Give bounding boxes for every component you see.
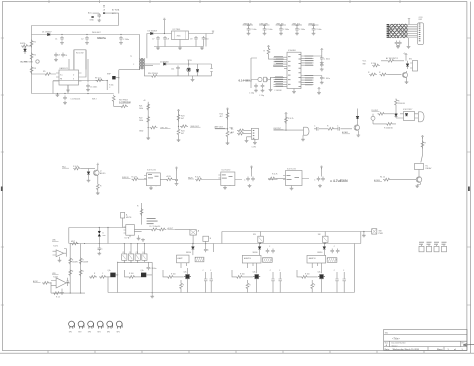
ground con2	[254, 139, 256, 141]
MCU right pin stubs	[301, 56, 314, 85]
wire con pin3	[247, 137, 252, 139]
svg-text:100k: 100k	[139, 108, 143, 110]
resistor Rd3 vertical	[141, 203, 143, 225]
transistor Qr out	[419, 112, 425, 122]
capacitor Cd1	[395, 41, 399, 46]
svg-text:IC7 A: IC7 A	[125, 237, 130, 240]
title block	[384, 329, 467, 350]
border top ticks	[49, 0, 400, 3]
svg-text:7805: 7805	[177, 36, 181, 38]
capacitor Cc1	[204, 248, 208, 253]
ground Q7	[417, 183, 420, 185]
wire secondary top to regulator	[147, 34, 172, 59]
svg-text:<Doc>: <Doc>	[391, 344, 398, 347]
ground con	[245, 139, 249, 142]
ground aux	[318, 88, 321, 91]
capacitor C12	[120, 34, 121, 35]
coil L5	[107, 321, 113, 329]
zone letter left	[1, 187, 3, 192]
resistor Rb3	[180, 280, 182, 282]
resistor R5	[44, 73, 52, 76]
svg-text:KA5M IC1: KA5M IC1	[60, 67, 69, 70]
resistor Rr3	[386, 123, 394, 126]
svg-text:SW: SW	[318, 234, 321, 236]
capacitor pair 3	[335, 272, 338, 293]
switch S3	[137, 244, 139, 254]
resistor Rr2	[378, 112, 386, 115]
wire bottom rail	[108, 292, 354, 294]
relay chain flag	[421, 136, 424, 139]
ground secondary	[189, 72, 198, 78]
capacitor C20	[97, 13, 101, 18]
svg-text:C10: C10	[205, 39, 208, 41]
resistor VR1	[150, 126, 158, 129]
resistor Rd2	[158, 228, 166, 231]
svg-text:A7 WXA: A7 WXA	[112, 8, 120, 11]
node +B flag	[163, 18, 166, 33]
switch box SB2	[203, 236, 209, 241]
resistor R22	[147, 116, 150, 124]
op-amp IC3 TL072	[147, 173, 161, 186]
capacitor Cs2	[335, 127, 343, 131]
transistor Q5	[402, 72, 407, 77]
LED DL1	[371, 116, 375, 120]
svg-text:SP4: SP4	[97, 332, 100, 334]
ground IC1 source	[67, 85, 69, 89]
wire block3 drops	[312, 263, 321, 273]
wire dac out	[134, 229, 150, 231]
connector CON2	[417, 23, 423, 45]
wire to Q5	[388, 74, 402, 76]
ground Rm2	[97, 190, 99, 193]
svg-text:IR1: IR1	[409, 59, 412, 61]
svg-text:IC2 7805: IC2 7805	[173, 29, 181, 31]
svg-text:C2: C2	[81, 39, 83, 41]
SIP resistor RS1	[195, 257, 204, 262]
svg-text:IC5 TL072: IC5 TL072	[287, 168, 296, 170]
capacitor pair 1	[204, 272, 207, 293]
wire column B	[80, 244, 82, 294]
node KEY tap	[285, 130, 286, 131]
svg-text:C4: C4	[65, 55, 67, 57]
capacitor U2B feedback	[67, 278, 69, 286]
svg-text:VOL: VOL	[363, 61, 367, 63]
capacitor Cf1	[176, 170, 178, 180]
svg-text:<Title>: <Title>	[392, 336, 400, 340]
wire dip join	[118, 260, 153, 262]
svg-text:SB260: SB260	[317, 252, 322, 254]
node stage3 flag	[250, 166, 253, 169]
MCU left pin stubs	[274, 57, 288, 86]
svg-text:of: of	[454, 349, 456, 351]
capacitor CX1	[254, 84, 258, 89]
capacitor Cdip	[147, 262, 149, 265]
svg-text:C 100n: C 100n	[150, 268, 156, 270]
IC10 amp	[307, 255, 326, 263]
svg-text:C 100n: C 100n	[324, 78, 330, 80]
wire amp top rail	[69, 227, 126, 229]
svg-text:R 10k: R 10k	[371, 63, 376, 65]
svg-text:C5 100n: C5 100n	[90, 87, 97, 89]
svg-text:R 100: R 100	[171, 274, 176, 276]
wire SMPS HV rail	[32, 35, 140, 59]
svg-text:C 10p: C 10p	[259, 95, 264, 97]
svg-text:4k7: 4k7	[181, 133, 184, 135]
LED D2	[36, 60, 39, 63]
border right ticks	[467, 38, 471, 305]
resistor Rr4	[421, 141, 424, 149]
svg-text:Document Number: Document Number	[391, 342, 406, 345]
wire IC1 gnd	[53, 81, 68, 94]
switch arm	[421, 155, 423, 163]
svg-text:C9: C9	[190, 39, 192, 41]
capacitor C7	[156, 36, 160, 41]
svg-text:R470k: R470k	[20, 43, 26, 45]
ground mcu bottom	[293, 89, 295, 91]
ground chain1	[147, 128, 149, 137]
wire mcu right cap1	[304, 51, 322, 56]
MCU right pin name text	[305, 55, 313, 58]
diode Dm1	[87, 172, 90, 174]
svg-text:RT 1u2: RT 1u2	[95, 78, 101, 80]
ground chain3	[227, 138, 229, 142]
svg-text:SP3: SP3	[88, 332, 91, 334]
diode Dc1	[192, 243, 193, 244]
ground	[397, 44, 400, 46]
wire SMPS left rail	[31, 26, 33, 94]
resistor R19b	[112, 95, 115, 103]
switch box SB1	[190, 230, 197, 235]
svg-text:RELAY: RELAY	[426, 167, 433, 170]
svg-text:R2: R2	[34, 55, 36, 57]
diode Dc2	[259, 243, 260, 244]
svg-text:A1015: A1015	[100, 172, 105, 175]
svg-text:C8: C8	[167, 39, 169, 41]
transistor sensor S1	[304, 127, 310, 135]
svg-text:C 100n: C 100n	[283, 29, 289, 31]
svg-text:IC6 PC817: IC6 PC817	[403, 109, 412, 111]
coil L3	[88, 321, 94, 329]
svg-text:0.22R/2W: 0.22R/2W	[119, 100, 131, 104]
SIP resistor RS2	[263, 258, 273, 263]
node chain2 top	[177, 110, 180, 113]
svg-text:C 100n: C 100n	[267, 29, 273, 31]
border left ticks	[1, 38, 4, 305]
wire block1 drops	[181, 244, 213, 269]
svg-text:C11: C11	[171, 69, 174, 71]
svg-text:R4 1.5W: R4 1.5W	[76, 52, 84, 54]
svg-text:R 4.7k: R 4.7k	[195, 177, 201, 179]
ground IC2	[179, 40, 181, 47]
resistor R19	[120, 105, 128, 108]
wire U2B gnd drop	[50, 283, 52, 293]
resistor R21	[147, 103, 150, 111]
ground stub IC3	[151, 185, 156, 188]
resistor Rb5	[311, 280, 313, 282]
capacitor CM2	[304, 75, 322, 77]
capacitor Cc3b	[336, 249, 340, 254]
svg-text:C 100n: C 100n	[299, 29, 305, 31]
wire U2A feedback	[64, 249, 66, 257]
jumper J1	[419, 242, 424, 245]
svg-text:D3 1N5819: D3 1N5819	[148, 31, 158, 33]
svg-text:R 2200/16: R 2200/16	[384, 127, 393, 129]
svg-text:2200/16: 2200/16	[398, 103, 405, 105]
transistor Q7	[416, 177, 422, 183]
IC9 amp	[242, 255, 261, 263]
zone letter right	[468, 187, 470, 192]
svg-text:SP6: SP6	[116, 332, 119, 334]
node +5 out	[212, 31, 214, 34]
svg-text:R 100: R 100	[305, 274, 310, 276]
ground connector	[408, 38, 410, 45]
ground mid	[151, 293, 153, 295]
svg-text:Title: Title	[385, 331, 389, 334]
wire block2 drops	[248, 263, 257, 273]
wire 7805 ground bus	[154, 34, 206, 47]
transistor Q1 FET	[112, 76, 115, 79]
svg-text:SW: SW	[253, 234, 256, 236]
svg-text:GND: GND	[139, 131, 144, 133]
svg-text:IC A2400: IC A2400	[288, 49, 296, 52]
capacitor C2	[86, 34, 87, 35]
border outer bottom line	[0, 352, 474, 354]
svg-text:4k7: 4k7	[220, 116, 223, 118]
ground	[97, 19, 101, 22]
resistor R1	[30, 40, 33, 48]
wire crystal rail	[251, 58, 257, 88]
capacitor C8	[163, 36, 167, 41]
resistor Rg2	[53, 292, 61, 295]
svg-text:SB260: SB260	[186, 252, 191, 254]
border outer right line	[470, 2, 472, 354]
svg-text:SW: SW	[363, 64, 366, 66]
diode D left	[24, 49, 27, 51]
ground Qir	[357, 131, 359, 134]
coil L6	[116, 321, 122, 329]
svg-text:C 4700u/16: C 4700u/16	[70, 98, 80, 100]
wire amp mid rail	[70, 243, 361, 245]
svg-text:A OU: A OU	[167, 175, 172, 178]
capacitor C5	[86, 84, 90, 89]
svg-text:S: S	[73, 78, 74, 80]
wire ACC dashes	[93, 12, 100, 14]
ground sensor	[302, 135, 304, 138]
capacitor C1	[61, 34, 62, 35]
capacitor CM1b	[321, 61, 323, 62]
ground U2B	[61, 289, 63, 292]
diode Dr1	[395, 114, 398, 116]
connector CON3	[251, 128, 258, 139]
relay RL1	[415, 164, 424, 170]
diode ir led	[356, 116, 359, 118]
MCU inner pin numbers	[288, 55, 291, 58]
capacitor Cc3a	[330, 249, 334, 254]
zener D6	[196, 70, 199, 72]
resistor R3	[30, 66, 33, 74]
wire IC1 feed	[32, 50, 89, 83]
capacitor C9	[194, 36, 198, 41]
svg-text:SB260: SB260	[253, 252, 258, 254]
diode Dc3	[324, 243, 325, 244]
capacitor Cc2b	[271, 249, 275, 254]
capacitor Cf3	[317, 177, 321, 182]
op-amp U10 MCU box	[287, 52, 301, 88]
opto IC6 PC817	[404, 112, 415, 121]
annotation arrow at rev box	[463, 344, 474, 346]
resistor Rk3	[285, 116, 288, 124]
snubber R4 tall box	[74, 50, 86, 70]
svg-text:ACC: ACC	[88, 11, 93, 14]
svg-text:IC3 TL072: IC3 TL072	[147, 169, 156, 171]
wire regulator output rail	[189, 33, 214, 35]
IC7 dac box	[126, 225, 135, 236]
ground stub IC5	[291, 186, 293, 187]
node tap3	[227, 128, 228, 129]
wire rail1b right drop	[360, 232, 362, 244]
svg-text:C 100n: C 100n	[324, 59, 330, 61]
resistor RA1	[69, 257, 72, 265]
svg-text:R 100: R 100	[240, 274, 245, 276]
resistor RB2	[79, 269, 82, 277]
svg-text:CON: CON	[252, 147, 257, 149]
svg-text:SP1: SP1	[69, 332, 72, 334]
svg-text:C7: C7	[152, 39, 154, 41]
svg-text:IC4 TL072: IC4 TL072	[222, 170, 231, 172]
MCU left pin name text	[273, 54, 314, 87]
ground rail	[56, 94, 60, 97]
svg-text:100UW: 100UW	[83, 262, 89, 264]
capacitor C6 4700u	[63, 96, 67, 101]
resistor Rs1	[327, 127, 335, 130]
transformer T1	[139, 58, 141, 69]
svg-text:A AMP10: A AMP10	[309, 257, 316, 260]
resistor RB1	[79, 257, 82, 265]
resistor Rin2	[42, 282, 50, 285]
node tap2	[178, 126, 179, 127]
svg-text:A AMP10: A AMP10	[244, 257, 251, 260]
resistor R25	[226, 112, 229, 120]
resistor rail zig	[71, 242, 79, 245]
switch S1	[123, 244, 125, 254]
svg-text:GND: GND	[90, 20, 95, 22]
transistor Q6 A1015	[94, 170, 100, 176]
svg-text:DB9: DB9	[419, 19, 422, 21]
wire amp rail1b	[222, 232, 372, 244]
svg-text:A AMP: A AMP	[178, 257, 184, 260]
svg-text:R 4.7k: R 4.7k	[288, 118, 294, 120]
capacitor CM1	[320, 56, 324, 61]
fuse F1	[91, 16, 93, 18]
capacitor CX2	[261, 84, 265, 89]
svg-text:R3: R3	[34, 68, 36, 70]
svg-text:R 4.7k: R 4.7k	[272, 174, 278, 176]
wire right frame	[353, 244, 355, 293]
wire secondary bottom	[144, 64, 160, 66]
resistor Rr1	[395, 99, 398, 107]
jumper J4	[442, 242, 447, 245]
svg-text:A7 KEY/INT R: A7 KEY/INT R	[386, 57, 399, 60]
capacitor C4	[61, 53, 65, 58]
IC2 7805	[172, 31, 189, 40]
capacitor Cd2	[398, 41, 402, 46]
svg-text:FB: FB	[60, 78, 62, 80]
svg-text:= 4.7uEX/N: = 4.7uEX/N	[330, 179, 348, 183]
svg-text:100k: 100k	[139, 120, 143, 122]
transistor Qir	[354, 125, 359, 130]
resistor Rm2	[97, 163, 99, 183]
svg-text:C 10p: C 10p	[249, 93, 254, 95]
coil L4	[97, 321, 103, 329]
svg-text:6.144MHz: 6.144MHz	[239, 78, 253, 82]
resistor R pullup	[267, 46, 270, 49]
svg-text:RL 1k: RL 1k	[380, 177, 385, 179]
switch box ch3	[324, 232, 326, 244]
svg-text:C 100UW: C 100UW	[274, 90, 282, 92]
wire mesh terminators	[387, 24, 390, 38]
svg-text:SP2: SP2	[78, 332, 81, 334]
svg-text:R5: R5	[43, 71, 45, 73]
node B+ flag	[188, 60, 190, 64]
zener D10	[99, 227, 100, 228]
capacitor Cc2a	[266, 249, 270, 254]
svg-text:4k7: 4k7	[181, 118, 184, 120]
svg-text:33k/2w: 33k/2w	[97, 36, 107, 40]
resistor R24	[177, 128, 180, 136]
IC1 KA5M0280R	[59, 70, 79, 85]
svg-text:Sheet: Sheet	[437, 348, 443, 351]
svg-text:Vcc: Vcc	[60, 74, 63, 76]
small box feed	[121, 213, 125, 219]
svg-text:zen: zen	[103, 235, 106, 237]
jumper J2	[427, 242, 432, 245]
border bottom ticks	[48, 351, 424, 354]
switch S4	[143, 244, 145, 254]
capacitor C10	[202, 36, 206, 41]
capacitor Cs1	[314, 128, 327, 130]
resistor Rv3	[380, 73, 388, 76]
svg-text:C 100n: C 100n	[123, 39, 129, 41]
capacitor C99	[99, 243, 100, 244]
capacitor C11	[176, 66, 180, 71]
svg-text:+5: +5	[403, 53, 405, 55]
svg-text:PWR: PWR	[379, 233, 384, 235]
capacitor C3	[54, 53, 58, 58]
resistor Rv1	[372, 64, 380, 67]
svg-text:TL072: TL072	[53, 246, 58, 248]
wire SMPS top rail	[32, 25, 119, 27]
crystal X1	[258, 77, 262, 81]
switch S2	[130, 244, 132, 254]
wire amp left drop	[68, 228, 70, 244]
ground chain2	[178, 136, 180, 139]
IR receiver U5	[405, 57, 407, 61]
ground Q5	[406, 78, 408, 81]
coil L1	[69, 321, 75, 329]
wire ribbon mesh	[390, 25, 417, 38]
ground rail1b	[363, 231, 364, 232]
label text block	[147, 218, 158, 224]
svg-text:A L: A L	[231, 128, 234, 131]
wire dip right drop	[151, 262, 153, 292]
resistor Rb4	[247, 280, 249, 282]
opto LED D5	[187, 68, 191, 72]
svg-text:C1: C1	[55, 39, 57, 41]
node tap1	[148, 127, 149, 128]
ground dac	[130, 235, 139, 237]
wire source rail	[53, 81, 107, 91]
wire drop 2	[107, 227, 108, 228]
